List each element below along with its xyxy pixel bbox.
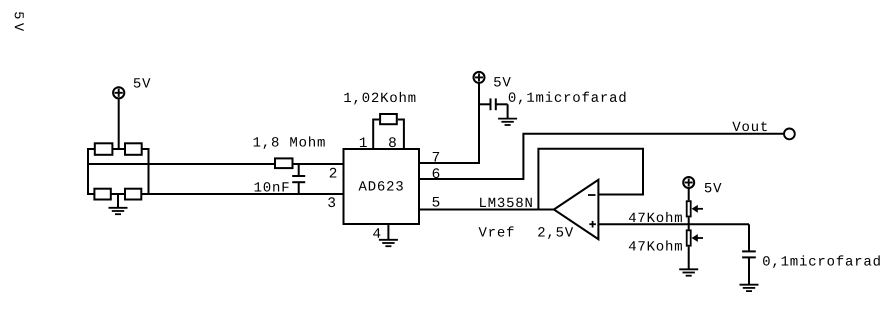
label Vout (732, 122, 766, 131)
resistor R 1,02Kohm (380, 114, 397, 124)
wire + input to divider and capacitor (598, 223, 749, 225)
wire feedback loop (538, 149, 643, 210)
ground (bridge) (109, 208, 128, 214)
wire 47K bottom to ground (688, 247, 690, 270)
wire 1.8M to pin 2 (294, 163, 344, 165)
IC U1 AD623 (344, 149, 420, 224)
resistor R 1,8 Mohm (275, 158, 293, 168)
power 5V (divider) (683, 177, 694, 188)
label AD623 (359, 181, 403, 191)
pin number 6 (433, 168, 440, 178)
label 5V (bridge) (134, 78, 151, 87)
resistor 47Kohm (top) (687, 201, 691, 216)
wire bridge left edge (87, 148, 89, 195)
resistor 47Kohm (bottom) (687, 230, 691, 245)
resistor bridge top-right (125, 143, 142, 155)
label 2,5V (538, 227, 573, 239)
ground (divider) (679, 269, 698, 275)
ground (pin 4) (379, 240, 398, 246)
capacitor 10nF (292, 164, 305, 194)
label 0,1microfarad (top) (509, 92, 626, 105)
op-amp minus input mark (588, 194, 596, 196)
wire bridge to ground (117, 194, 119, 208)
wire bridge bottom edge / output to pin 3 (88, 193, 344, 195)
label 47Kohm (top) (629, 212, 682, 222)
capacitor 0,1microfarad (bottom) (742, 224, 756, 284)
wire gain loop pin 1 (373, 120, 379, 150)
pin number 1 (360, 137, 367, 147)
wire pin 4 to ground (387, 224, 389, 240)
label 0,1microfarad (bottom) (763, 255, 880, 268)
label 1,8 Mohm (254, 136, 325, 149)
terminal Vout (784, 129, 795, 140)
label Vref (479, 226, 514, 236)
op-amp plus input mark (589, 221, 596, 228)
ground (bottom capacitor) (740, 285, 759, 291)
trimmer arrow (bottom 47K) (692, 234, 703, 242)
label 5V (decoupling) (494, 77, 511, 86)
op-amp U2 LM358N (554, 180, 599, 239)
trimmer arrow (top 47K) (692, 205, 703, 213)
wire pin 7 to 5V (419, 84, 479, 164)
wire gain loop pin 8 (398, 120, 404, 150)
resistor bridge bottom-left (94, 189, 110, 200)
wire bridge top edge (88, 148, 149, 150)
wire pin 5 to op-amp output (419, 209, 554, 211)
label 5V (divider) (705, 183, 722, 192)
capacitor 0,1microfarad (top) (479, 98, 508, 118)
label 1,02Kohm (344, 92, 415, 105)
wire bridge mid output to 1.8M (88, 163, 274, 165)
pin number 5 (433, 197, 440, 207)
wire 5V to 47K top (688, 188, 690, 201)
wire 47K top to junction (688, 217, 690, 229)
pin number 8 (389, 137, 396, 147)
resistor bridge top-left (95, 143, 113, 155)
ground (top capacitor) (498, 119, 517, 125)
power 5V P1 (bridge supply) (113, 87, 124, 98)
wire pin 6 to Vout (419, 134, 783, 179)
pin number 4 (373, 228, 380, 238)
label 10nF (255, 182, 289, 192)
label LM358N (480, 198, 532, 208)
wire bridge right edge (148, 148, 150, 195)
label 47Kohm (bottom) (629, 240, 682, 250)
net label 5V rotated (top-left) (15, 12, 24, 31)
power 5V (decoupling) (474, 72, 485, 83)
pin number 7 (433, 152, 439, 162)
pin number 3 (328, 197, 335, 207)
pin number 2 (330, 168, 337, 178)
resistor bridge bottom-right (125, 189, 141, 200)
wire 5V to bridge top (118, 98, 120, 150)
